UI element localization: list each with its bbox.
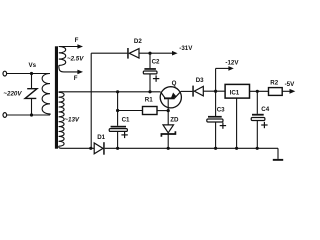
varistor Z1 — [25, 74, 37, 116]
transformer T1 core — [55, 46, 58, 148]
junction dot base node — [167, 109, 170, 112]
junction dot C1 bottom — [116, 147, 119, 150]
IC IC1 — [225, 84, 249, 98]
svg-text:-5V: -5V — [285, 81, 296, 88]
wire IC1 ground pin — [236, 98, 238, 148]
svg-text:D2: D2 — [134, 38, 142, 45]
wire D2 cathode return (vertical) — [90, 53, 92, 148]
resistor R2 — [269, 88, 283, 96]
junction dot ZD bottom — [167, 147, 170, 150]
wire winding bottom to D1 — [59, 146, 95, 148]
terminal P2 (bottom input) — [3, 113, 7, 118]
resistor R1 — [143, 107, 158, 115]
junction dot rail to C1 branch — [116, 90, 119, 93]
wire C1/R1 branch vertical — [117, 92, 119, 126]
svg-text:~13V: ~13V — [64, 117, 79, 124]
junction dot -12V / C3 node — [214, 90, 217, 93]
wire R2 to -5V — [282, 90, 290, 92]
capacitor C2 — [143, 53, 159, 92]
svg-text:C4: C4 — [261, 106, 269, 113]
svg-text:F: F — [74, 75, 78, 82]
junction dot C3 bottom — [214, 147, 217, 150]
transistor Q — [160, 87, 181, 111]
junction dot node Vs — [30, 72, 33, 75]
junction dot varistor bottom — [30, 113, 33, 116]
svg-text:D3: D3 — [196, 77, 204, 84]
capacitor C3 — [207, 91, 226, 148]
junction dot C4 bottom — [256, 147, 259, 150]
wire IC1 output — [250, 90, 269, 92]
svg-text:IC1: IC1 — [230, 89, 240, 96]
output arrow -31V — [172, 51, 178, 56]
transformer T1 primary winding — [42, 74, 50, 116]
junction dot C2 top — [148, 52, 151, 55]
bus wire (negative common rail) — [105, 147, 278, 149]
wire mid rail (winding top to transistor) — [59, 91, 161, 93]
junction dot C2 bottom — [148, 90, 151, 93]
svg-text:~2.5V: ~2.5V — [67, 55, 84, 62]
transformer T1 secondary 13V winding — [59, 92, 64, 146]
wire bottom input — [7, 114, 50, 116]
svg-text:-31V: -31V — [179, 45, 193, 52]
svg-text:D1: D1 — [97, 134, 105, 141]
diode D3 — [192, 86, 203, 97]
ground — [273, 148, 283, 160]
svg-text:ZD: ZD — [170, 116, 179, 123]
svg-text:C1: C1 — [122, 116, 130, 123]
svg-text:C2: C2 — [152, 58, 160, 65]
wire D2 to -31V — [139, 52, 173, 54]
wire to D2 — [91, 52, 127, 54]
capacitor C1 — [109, 126, 128, 149]
svg-text:C3: C3 — [217, 106, 225, 113]
junction dot winding bottom / D2 return — [89, 147, 92, 150]
junction dot C4 top — [256, 90, 259, 93]
svg-text:F: F — [75, 37, 79, 44]
capacitor C4 — [251, 91, 267, 148]
output -12V wire and arrow — [216, 66, 234, 91]
wire D3 to IC1 — [203, 90, 225, 92]
junction dot R1 left node — [116, 109, 119, 112]
zener diode ZD — [161, 111, 175, 149]
filament output F top: wire and arrow — [59, 44, 83, 49]
svg-text:R1: R1 — [145, 97, 153, 104]
output arrow -5V — [290, 89, 296, 94]
wire R1 right to base node — [157, 110, 168, 112]
diode D2 — [127, 48, 139, 59]
junction dot IC1 ground — [235, 147, 238, 150]
terminal P1 (top input) — [3, 71, 7, 76]
filament output F bottom: wire and arrow — [59, 65, 83, 74]
diode D1 — [94, 142, 105, 155]
svg-text:~220V: ~220V — [3, 91, 22, 98]
svg-text:R2: R2 — [270, 80, 278, 87]
svg-text:-12V: -12V — [225, 59, 239, 66]
wire emitter to D3 — [181, 90, 193, 92]
transformer T1 secondary 2.5V winding — [59, 47, 66, 66]
wire R1 left — [118, 110, 143, 112]
svg-text:Vs: Vs — [29, 62, 37, 69]
wire top input — [7, 73, 50, 75]
svg-text:Q: Q — [172, 80, 177, 87]
